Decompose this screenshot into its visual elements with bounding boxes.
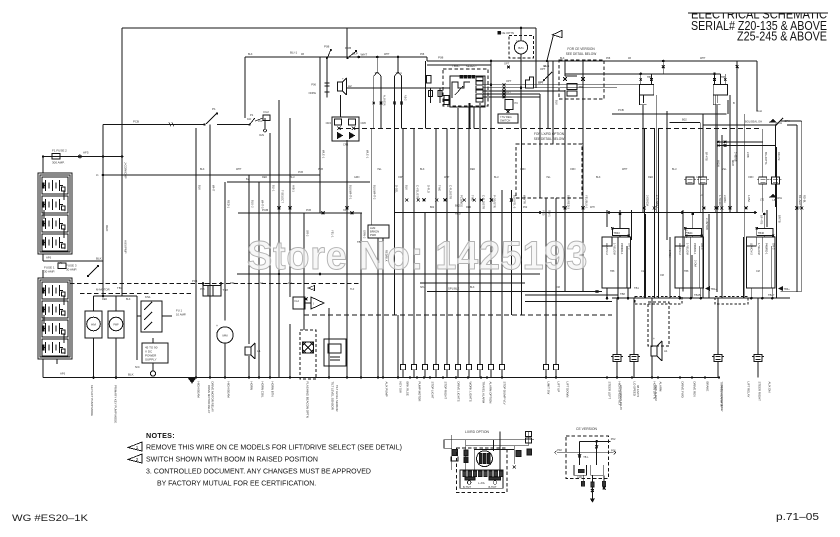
wire — [490, 150, 492, 365]
terminal mark — [435, 199, 438, 202]
wire — [479, 190, 481, 365]
wire — [465, 440, 467, 470]
cell jumper — [63, 334, 65, 343]
link to FU2 — [255, 118, 263, 121]
wire — [669, 237, 671, 298]
wire — [446, 129, 448, 365]
terminal mark — [564, 207, 567, 210]
wire — [801, 121, 803, 292]
svg-text:TB3: TB3 — [117, 286, 123, 290]
svg-text:10 AMP.: 10 AMP. — [176, 313, 186, 317]
LX/RD top rail — [444, 439, 534, 441]
CE detail dashed box — [566, 436, 608, 479]
wire — [715, 95, 717, 212]
svg-text:1-05A: 1-05A — [747, 195, 751, 202]
svg-text:BLK: BLK — [560, 57, 565, 60]
wire pump top — [115, 296, 117, 311]
strike line over title — [688, 12, 828, 14]
wire — [721, 135, 723, 298]
bus jog — [426, 57, 428, 61]
step component right — [526, 77, 534, 88]
coil out — [692, 236, 694, 238]
svg-text:30 AMP.: 30 AMP. — [66, 268, 77, 272]
svg-text:2-4B/TRB: 2-4B/TRB — [705, 218, 709, 230]
horn A2 — [338, 82, 343, 91]
svg-text:LRD: LRD — [577, 476, 582, 479]
terminal mark — [714, 207, 717, 210]
svg-text:RED: RED — [262, 176, 267, 179]
wire aux down — [377, 238, 379, 378]
connector on bank1 wire — [79, 155, 82, 158]
ce drop 2 — [582, 99, 584, 129]
LX/RD upper stubs — [451, 435, 453, 470]
wire right y292 — [781, 291, 802, 293]
svg-text:WHT: WHT — [361, 53, 368, 57]
wire — [402, 129, 404, 365]
flag note symbol — [547, 35, 554, 61]
wire alarm — [651, 298, 653, 347]
ce arrow — [590, 499, 594, 502]
svg-text:RED: RED — [648, 176, 653, 179]
svg-text:BLU/RED-3: BLU/RED-3 — [567, 195, 571, 210]
bank2 tap — [56, 359, 58, 364]
svg-text:TLF: TLF — [350, 288, 355, 291]
left rail hook — [555, 451, 557, 455]
wire x548 lower — [547, 61, 549, 129]
wire — [643, 129, 645, 299]
svg-text:REMOVE THIS WIRE ON CE MODELS: REMOVE THIS WIRE ON CE MODELS FOR LIFT/D… — [146, 445, 402, 452]
bus junction — [248, 376, 250, 378]
wire y65 — [427, 64, 491, 66]
svg-text:TB4+: TB4+ — [784, 287, 791, 291]
svg-text:BLK: BLK — [562, 206, 567, 209]
svg-text:IGN: IGN — [259, 133, 264, 137]
wire — [766, 210, 768, 227]
terminal mark — [643, 207, 646, 210]
svg-text:FOR CE VERSION: FOR CE VERSION — [567, 47, 595, 51]
svg-text:RED: RED — [466, 206, 471, 209]
bus y283 right — [420, 282, 525, 284]
terminal mark — [405, 199, 408, 202]
svg-text:RED: RED — [470, 168, 475, 171]
svg-text:BF/TB: BF/TB — [778, 215, 782, 223]
svg-text:4PH: 4PH — [777, 121, 782, 125]
ce u-shape right — [591, 465, 604, 475]
corner drop x720 — [720, 74, 722, 85]
svg-text:B-TN/T: B-TN/T — [463, 486, 472, 489]
top bus y28 — [122, 27, 536, 29]
CE version dashed box — [559, 60, 604, 99]
wire — [289, 324, 291, 378]
wire — [435, 129, 437, 365]
ks1 out wire — [162, 315, 172, 317]
bus junction — [555, 376, 557, 378]
svg-text:NB-2: NB-2 — [404, 95, 407, 101]
svg-text:AUX DN: AUX DN — [767, 382, 771, 393]
wire — [248, 356, 250, 378]
switch on x548 — [545, 72, 552, 79]
svg-text:J1: J1 — [96, 174, 99, 177]
svg-text:DRIVE LIGHTS: DRIVE LIGHTS — [456, 382, 460, 402]
horn H1 — [245, 347, 251, 355]
svg-text:AF6: AF6 — [58, 262, 63, 265]
svg-text:ALARM OPTION: ALARM OPTION — [488, 382, 492, 404]
svg-text:TB8: TB8 — [610, 270, 615, 273]
svg-text:CR4: CR4 — [326, 121, 332, 125]
wire y124 — [703, 124, 775, 126]
svg-text:BLK: BLK — [420, 168, 425, 171]
detail ring 2 — [493, 481, 497, 485]
outline notch — [602, 237, 612, 246]
svg-text:H1: H1 — [257, 349, 261, 353]
svg-text:P0B: P0B — [192, 279, 197, 283]
relay drop 1 — [750, 288, 752, 298]
svg-text:LEA/CM-2: LEA/CM-2 — [678, 243, 682, 255]
svg-text:KEY/LIFT PUMP MODE: KEY/LIFT PUMP MODE — [90, 385, 94, 416]
svg-text:STOP LIGHT: STOP LIGHT — [430, 382, 434, 399]
svg-text:FL2: FL2 — [288, 282, 293, 285]
bus junction — [346, 376, 348, 378]
svg-text:TRAVEL ALARM: TRAVEL ALARM — [481, 382, 485, 404]
svg-text:BF-4TB: BF-4TB — [705, 152, 708, 161]
buzzer dashed box — [509, 36, 534, 59]
bus junction — [423, 376, 425, 378]
svg-text:DRIVE REV: DRIVE REV — [692, 382, 696, 398]
svg-text:BLK: BLK — [200, 168, 205, 171]
wire x270 long — [269, 133, 271, 378]
bus y182 — [227, 181, 370, 183]
svg-text:T-SELECT: T-SELECT — [281, 190, 285, 203]
svg-text:PCB: PCB — [262, 208, 268, 212]
connector square — [543, 365, 548, 370]
terminal mark — [473, 199, 476, 202]
svg-text:STEER RIGHT: STEER RIGHT — [757, 382, 761, 402]
wire x196 long — [195, 128, 197, 378]
wire ps top — [152, 338, 154, 343]
svg-text:BLK: BLK — [596, 176, 601, 179]
wire — [413, 129, 415, 365]
svg-text:P4B/RD-1: P4B/RD-1 — [764, 243, 768, 255]
wire alarm low — [651, 356, 653, 378]
svg-text:BF-4TB: BF-4TB — [760, 215, 764, 224]
gauge circle — [477, 451, 493, 467]
svg-text:WLE-1: WLE-1 — [366, 150, 370, 159]
cell jumper — [63, 229, 65, 238]
wire fuse feed 4 — [757, 298, 759, 355]
bus y291 — [427, 291, 602, 293]
wire x=103 vertical — [102, 125, 104, 296]
svg-text:4PH: 4PH — [590, 206, 595, 209]
wire — [258, 182, 260, 378]
svg-text:BLU: BLU — [672, 168, 677, 171]
terminal mark — [702, 207, 705, 210]
stub x265 — [264, 118, 266, 129]
ce drop 1 — [582, 475, 584, 486]
bus y212 — [395, 212, 757, 214]
relay TB46 coil box — [757, 228, 773, 235]
bus junction — [416, 376, 418, 378]
svg-text:LG: LG — [700, 194, 703, 197]
bus y61 corner down — [736, 61, 738, 213]
svg-text:BLK: BLK — [126, 298, 131, 301]
bus junction — [195, 376, 197, 378]
right stack component — [526, 432, 532, 437]
bus y274 — [237, 273, 540, 275]
svg-text:BZ1: BZ1 — [518, 46, 524, 50]
svg-text:P06: P06 — [311, 83, 316, 87]
hour meter box — [85, 311, 102, 338]
inner wire b — [699, 246, 701, 288]
svg-text:BLU/WHT-1: BLU/WHT-1 — [349, 185, 353, 200]
wire across meters — [94, 295, 138, 297]
svg-text:2-RBA: 2-RBA — [668, 250, 672, 258]
svg-text:BLU-2: BLU-2 — [251, 200, 255, 208]
svg-text:N/C: N/C — [135, 365, 140, 369]
bus junction — [631, 376, 633, 378]
svg-text:DRIVE MOTOR RELAY: DRIVE MOTOR RELAY — [207, 385, 211, 413]
terminal mark — [444, 199, 447, 202]
svg-text:CE OPTN: CE OPTN — [502, 31, 514, 35]
key switch cluster KS1 — [136, 296, 138, 360]
svg-text:PDB: PDB — [345, 46, 351, 50]
cell jumper — [43, 315, 45, 324]
svg-text:WH/TR: WH/TR — [523, 195, 527, 204]
tick — [172, 123, 174, 127]
wire — [582, 129, 584, 292]
svg-text:DRIVE FWD: DRIVE FWD — [680, 382, 684, 398]
wire — [716, 129, 718, 293]
right small component — [427, 76, 432, 84]
svg-text:RED-1: RED-1 — [227, 200, 231, 209]
svg-text:FLASHING BEACON OPTN: FLASHING BEACON OPTN — [305, 382, 309, 418]
flashing beacon dashed box — [300, 330, 316, 379]
svg-text:TB L: TB L — [583, 456, 589, 459]
svg-text:LIFT UP: LIFT UP — [556, 382, 560, 393]
svg-text:YEL: YEL — [722, 168, 727, 171]
wire — [520, 129, 522, 316]
svg-text:BRK RLSE: BRK RLSE — [405, 382, 409, 396]
svg-text:B-TN/T: B-TN/T — [489, 486, 498, 489]
aux breakdown power box — [368, 225, 389, 238]
bus junction — [429, 376, 431, 378]
svg-text:OPT: OPT — [504, 62, 510, 66]
coil feed — [692, 214, 694, 228]
note flag 2 small — [308, 286, 315, 291]
svg-text:3. CONTROLLED DOCUMENT. ANY C: 3. CONTROLLED DOCUMENT. ANY CHANGES MUST… — [146, 469, 371, 476]
flasher FL2 box — [293, 297, 305, 309]
bus junction — [328, 376, 330, 378]
svg-text:CR3: CR3 — [343, 143, 349, 147]
svg-text:STOP DUMP VLV: STOP DUMP VLV — [502, 382, 506, 405]
dashed option line y315 — [304, 314, 612, 316]
svg-text:LEA/CM-2: LEA/CM-2 — [605, 243, 609, 255]
svg-text:YEL/BLU-1: YEL/BLU-1 — [585, 195, 589, 209]
bus junction — [269, 376, 271, 378]
wire x728 top — [727, 100, 729, 114]
wire — [744, 114, 746, 298]
pin small 2 — [444, 101, 449, 105]
svg-text:+: + — [342, 77, 344, 81]
battery cell B14 — [42, 234, 69, 251]
tick — [169, 123, 171, 127]
contact pair TB1 — [376, 57, 378, 72]
svg-text:KEY SW: KEY SW — [398, 382, 402, 393]
wire x491 — [490, 61, 492, 150]
svg-text:ALM: ALM — [370, 226, 375, 230]
outline notch — [746, 237, 756, 246]
inner wire b — [626, 246, 628, 288]
svg-text:SPL: SPL — [420, 286, 425, 289]
svg-text:RD-BL: RD-BL — [803, 195, 807, 204]
svg-text:CE VERSION: CE VERSION — [576, 427, 597, 431]
svg-text:TELA: TELA — [396, 72, 403, 75]
svg-text:4PH: 4PH — [777, 196, 782, 200]
svg-text:AF6: AF6 — [46, 256, 52, 260]
terminal mark — [423, 199, 426, 202]
svg-text:WHT: WHT — [212, 185, 216, 191]
svg-text:TB3: TB3 — [230, 282, 235, 285]
svg-text:BRAKE RELEASE SW: BRAKE RELEASE SW — [720, 385, 724, 412]
ce vertical b — [596, 441, 598, 465]
wire y142 — [717, 141, 763, 143]
wire to x801 — [780, 120, 802, 122]
switch P1b — [250, 118, 255, 125]
wire — [371, 129, 373, 226]
svg-text:BLI-1: BLI-1 — [272, 185, 276, 192]
strip blob 2 — [489, 477, 501, 480]
svg-text:GRN: GRN — [354, 176, 360, 179]
fuse FUSE1 30A — [58, 263, 66, 269]
relay drop 3 — [771, 288, 773, 298]
pin stub 1 — [640, 74, 642, 85]
ce vertical a — [579, 441, 581, 465]
stub x663 — [662, 61, 664, 74]
dashed terminal cover 2 — [715, 297, 748, 305]
svg-text:HIGH BEAM: HIGH BEAM — [226, 382, 230, 399]
relay drop 2 — [690, 288, 692, 298]
svg-text:P02: P02 — [557, 448, 562, 452]
wire — [360, 213, 362, 378]
bus junction — [455, 376, 457, 378]
prong a2 — [380, 76, 382, 108]
fuse on x430 — [430, 88, 432, 103]
bus y114 PCB — [612, 113, 726, 115]
wire — [555, 198, 557, 365]
svg-text:SEE DETAIL BELOW: SEE DETAIL BELOW — [566, 52, 596, 56]
svg-text:J-CON/CMP: J-CON/CMP — [124, 162, 128, 179]
wire x=122 vertical — [121, 28, 123, 296]
svg-text:Y-03: Y-03 — [542, 210, 546, 216]
note flag 1 — [128, 442, 142, 451]
svg-text:HIB-1: HIB-1 — [292, 185, 296, 192]
wire horn down — [340, 95, 342, 117]
bus junction — [616, 376, 618, 378]
wire — [606, 210, 608, 227]
svg-text:WHT: WHT — [622, 168, 628, 171]
svg-text:4B: 4B — [628, 57, 631, 60]
svg-text:B: B — [733, 101, 735, 105]
wire — [630, 210, 632, 240]
bus junction — [258, 376, 260, 378]
ce drop 2 — [591, 475, 593, 498]
svg-text:NOTES:: NOTES: — [146, 431, 175, 440]
wire — [729, 95, 731, 212]
svg-text:PRIMARY KEY PUMP MODE: PRIMARY KEY PUMP MODE — [114, 385, 118, 423]
battery cell B24 — [42, 339, 69, 356]
switch PDB on bus — [348, 52, 356, 58]
svg-text:+: + — [64, 247, 66, 251]
svg-text:HORN BTN: HORN BTN — [270, 382, 274, 397]
svg-text:TB46: TB46 — [758, 231, 765, 235]
svg-text:LIMIT SW: LIMIT SW — [546, 382, 550, 395]
bus junction — [360, 376, 362, 378]
terminal ring — [150, 371, 155, 376]
fuse symbols right mid — [686, 177, 694, 184]
diode box CR1/CR2 — [332, 117, 359, 141]
svg-text:OM-3: OM-3 — [772, 243, 776, 250]
wire — [457, 190, 459, 365]
bus y88 — [347, 87, 451, 89]
relay small box PC — [505, 100, 513, 110]
wire — [513, 446, 515, 464]
svg-text:+: + — [64, 209, 66, 213]
ce drop 3 — [603, 475, 605, 489]
hour meter dial — [87, 317, 101, 331]
bus junction — [224, 376, 226, 378]
right rail hook — [614, 451, 616, 455]
fuse F1 300A — [52, 154, 60, 160]
wire x762.8 — [762, 129, 764, 177]
dashed option line left — [70, 283, 361, 285]
terminal mark — [729, 207, 732, 210]
relay TB43 outline — [602, 237, 631, 288]
battery cell B21 — [42, 282, 69, 299]
wire x521 lower — [520, 54, 522, 129]
wire — [666, 111, 668, 240]
svg-text:OM: OM — [556, 286, 560, 289]
bus junction — [606, 376, 608, 378]
svg-text:C-FLD/STR: C-FLD/STR — [449, 185, 453, 199]
wire — [653, 129, 655, 299]
wire — [401, 108, 403, 129]
bus junction — [289, 376, 291, 378]
wire y145.5 — [717, 145, 776, 147]
svg-text:RED: RED — [102, 298, 107, 301]
svg-text:WHT: WHT — [236, 168, 242, 171]
connector box TB8 — [203, 286, 221, 297]
wire bank1 top — [42, 157, 44, 174]
svg-text:1: 1 — [136, 445, 139, 450]
switch on battery feed — [88, 266, 98, 276]
svg-text:PMP: PMP — [113, 324, 119, 327]
svg-text:AUX PUMP: AUX PUMP — [384, 382, 388, 397]
svg-text:WHT: WHT — [444, 176, 450, 179]
wire — [468, 103, 470, 190]
svg-text:LO SPEED: LO SPEED — [632, 382, 636, 396]
svg-text:TILT LEVEL SENSOR: TILT LEVEL SENSOR — [335, 385, 339, 411]
terminal mark — [716, 207, 719, 210]
arrow TB4+ — [779, 287, 783, 291]
fuse on x440 — [439, 88, 441, 103]
keypad dots — [460, 75, 463, 78]
wire x327 down — [326, 59, 328, 98]
svg-text:GRN: GRN — [520, 168, 526, 171]
svg-text:PCB: PCB — [133, 120, 139, 124]
LX/RD dashed box — [516, 144, 582, 198]
svg-text:CR6: CR6 — [361, 121, 367, 125]
controller inner box — [450, 76, 485, 107]
svg-text:BLK: BLK — [248, 53, 253, 56]
